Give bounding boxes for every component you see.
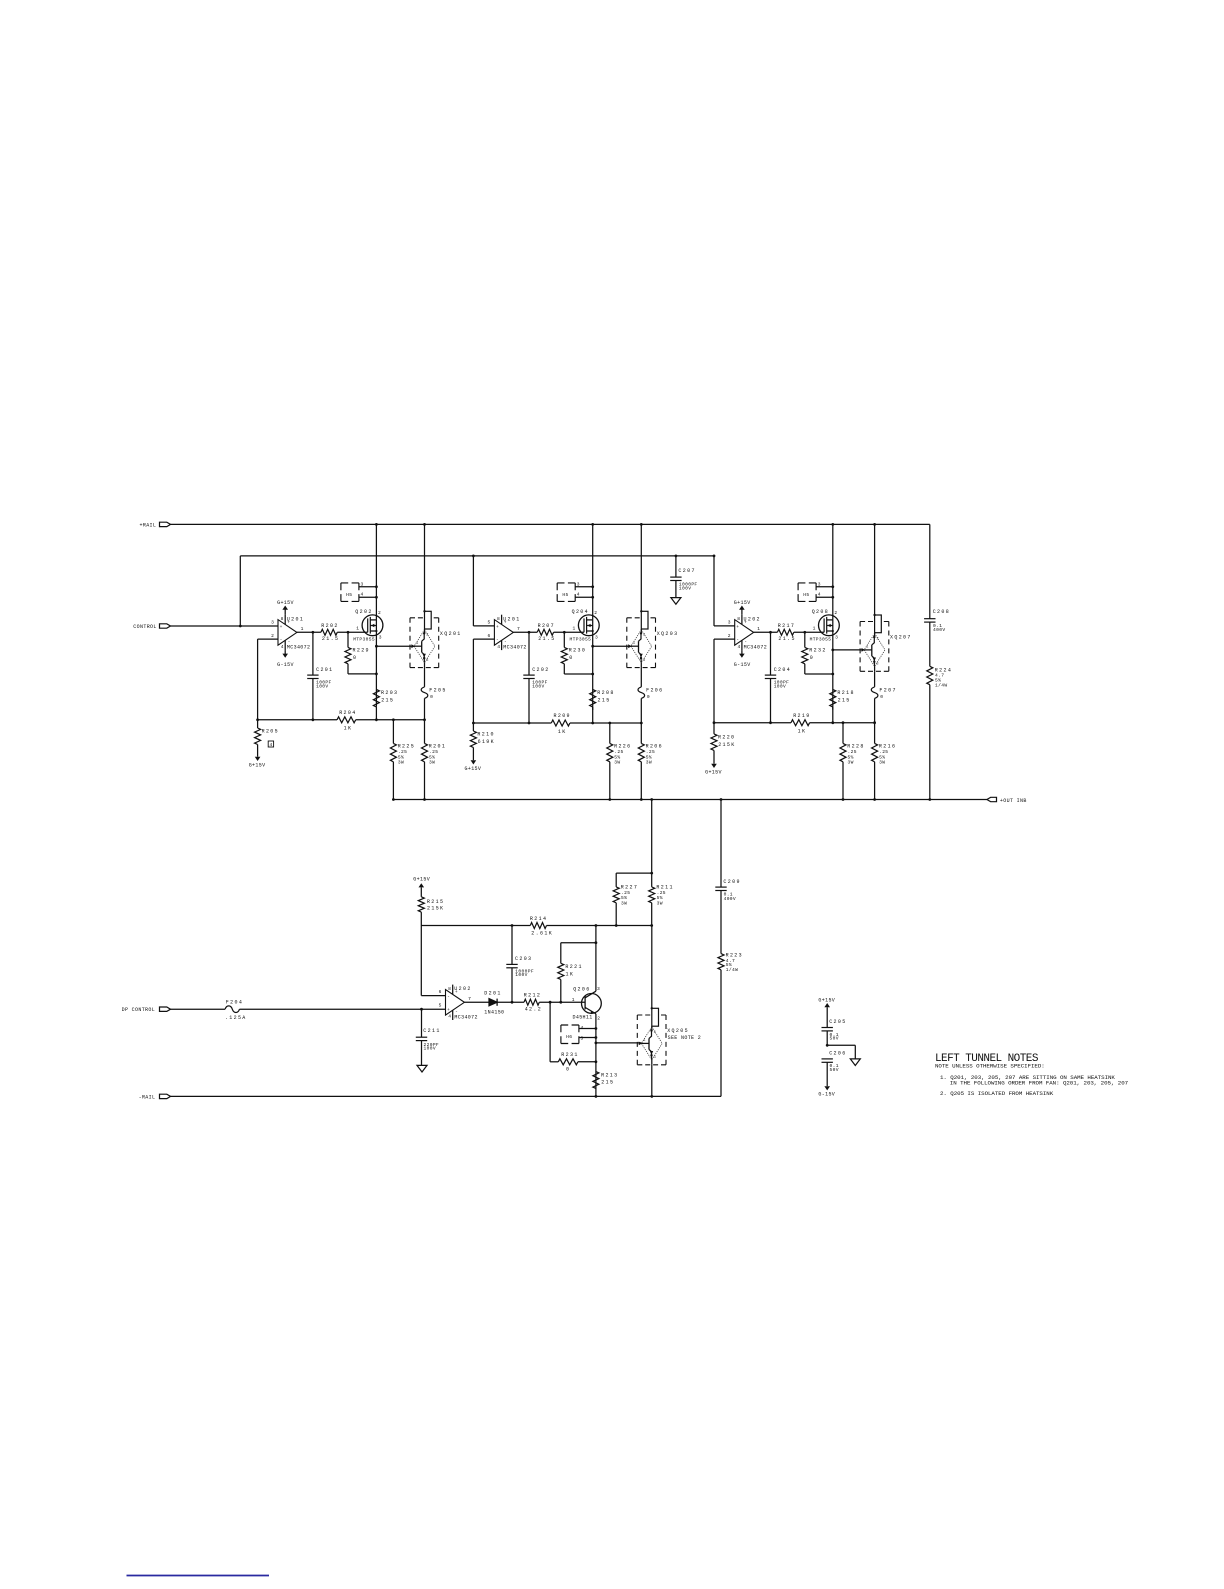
- svg-text:Q202: Q202: [355, 609, 372, 615]
- wire source line: [832, 631, 834, 710]
- svg-text:F207: F207: [879, 687, 896, 693]
- svg-text:1: 1: [633, 642, 635, 646]
- svg-text:1: 1: [573, 625, 576, 631]
- svg-text:XQ201: XQ201: [440, 631, 462, 637]
- wire gate node: [794, 631, 824, 633]
- fuse F205 0: [424, 668, 426, 687]
- svg-text:.25: .25: [429, 749, 438, 755]
- svg-text:C204: C204: [774, 667, 791, 673]
- capacitor C205 0.1 50V: [824, 1003, 830, 1007]
- svg-text:5%: 5%: [614, 754, 620, 760]
- svg-text:8: 8: [497, 616, 500, 622]
- wire heatsink pin 4: [816, 596, 833, 598]
- svg-text:R223: R223: [726, 953, 743, 959]
- svg-text:+: +: [496, 625, 499, 630]
- fuse F204: [225, 1006, 239, 1013]
- svg-text:U202: U202: [454, 986, 471, 992]
- wire diode to R212: [497, 1001, 524, 1003]
- connector +RAIL: [160, 522, 171, 526]
- svg-text:SEE NOTE 2: SEE NOTE 2: [668, 1035, 702, 1041]
- resistor R228 .25 5% 3W: [842, 723, 844, 744]
- svg-text:G+15V: G+15V: [705, 770, 722, 776]
- svg-text:0: 0: [647, 694, 650, 700]
- wire noninverting input feed: [713, 556, 715, 626]
- wire noninverting input feed: [472, 556, 474, 626]
- resistor R229 0: [347, 632, 349, 647]
- svg-text:-: -: [447, 995, 450, 1000]
- svg-text:R228: R228: [847, 744, 864, 750]
- op-amp U201 stage 2: [494, 620, 513, 646]
- svg-text:.25: .25: [657, 890, 666, 896]
- svg-text:.25: .25: [621, 890, 630, 896]
- wire feedback line: [714, 722, 791, 724]
- svg-text:2: 2: [728, 633, 731, 639]
- svg-text:F206: F206: [646, 687, 663, 693]
- svg-text:MC34072: MC34072: [454, 1014, 477, 1020]
- svg-text:4: 4: [577, 592, 580, 598]
- wire feedback line: [258, 719, 337, 721]
- svg-text:Q208: Q208: [812, 609, 829, 615]
- resistor R208 215: [590, 689, 596, 707]
- op-amp U202 lower half: [446, 990, 465, 1016]
- svg-text:5%: 5%: [879, 754, 885, 760]
- wire base node: [539, 1001, 585, 1003]
- svg-text:4: 4: [448, 1014, 451, 1020]
- svg-text:G+15V: G+15V: [277, 600, 294, 606]
- svg-text:DP CONTROL: DP CONTROL: [122, 1007, 156, 1013]
- svg-text:R227: R227: [621, 884, 638, 890]
- wire source line: [592, 631, 594, 710]
- svg-text:5%: 5%: [657, 895, 663, 901]
- svg-text:3: 3: [577, 581, 580, 587]
- transistor array XQ207: [874, 524, 876, 615]
- svg-text:3: 3: [379, 635, 382, 641]
- heatsink H5: [557, 582, 575, 584]
- svg-text:C202: C202: [532, 667, 549, 673]
- transistor Q202 MTP3055: [362, 615, 383, 636]
- svg-text:H5: H5: [562, 592, 568, 598]
- svg-text:6: 6: [439, 989, 442, 995]
- svg-text:21.5: 21.5: [778, 636, 795, 642]
- svg-text:R217: R217: [778, 623, 795, 629]
- wire DP control to pin 5: [420, 1008, 423, 1011]
- transistor array XQ201: [424, 524, 426, 611]
- ground: [417, 1065, 427, 1072]
- wire inverting input feedback: [473, 638, 494, 640]
- resistor R204 1K: [337, 717, 356, 723]
- transistor Q208 MTP3055: [819, 615, 840, 636]
- svg-text:R206: R206: [646, 744, 663, 750]
- resistor R231 0: [549, 1002, 551, 1062]
- svg-text:G+15V: G+15V: [413, 877, 430, 883]
- svg-text:4: 4: [818, 592, 821, 598]
- svg-text:Q206: Q206: [573, 987, 590, 993]
- resistor R219 1K: [791, 720, 810, 726]
- svg-text:R208: R208: [597, 690, 614, 696]
- svg-text:F204: F204: [226, 1000, 243, 1006]
- capacitor C209 0.1 400V: [720, 800, 722, 888]
- wire inverting input feedback: [714, 638, 735, 640]
- wire heatsink pin 4: [359, 596, 377, 598]
- svg-text:4: 4: [270, 742, 273, 748]
- wire op-amp output node: [754, 631, 778, 633]
- svg-text:5%: 5%: [398, 754, 404, 760]
- wire gate node: [554, 631, 584, 633]
- svg-text:0: 0: [569, 655, 573, 661]
- svg-text:.25: .25: [646, 749, 655, 755]
- heatsink H5: [798, 582, 816, 584]
- svg-text:3: 3: [426, 659, 428, 663]
- resistor R210 to G+15V: [472, 722, 475, 725]
- wire +OUT bus: [393, 799, 987, 801]
- svg-text:0: 0: [353, 655, 357, 661]
- svg-text:8: 8: [737, 616, 740, 622]
- wire emitter column: [595, 1014, 597, 1097]
- svg-text:1: 1: [416, 642, 418, 646]
- svg-text:R212: R212: [524, 993, 541, 999]
- svg-text:C201: C201: [316, 667, 333, 673]
- wire base drive: [833, 649, 864, 651]
- resistor R215 215K: [420, 887, 422, 896]
- svg-text:3: 3: [728, 619, 731, 625]
- svg-text:0: 0: [430, 694, 433, 700]
- svg-text:1: 1: [356, 625, 359, 631]
- svg-text:R224: R224: [935, 667, 952, 673]
- svg-text:4: 4: [281, 644, 284, 650]
- svg-text:0: 0: [566, 1066, 570, 1072]
- svg-text:1K: 1K: [344, 726, 353, 732]
- svg-text:XQ207: XQ207: [890, 635, 912, 641]
- svg-text:.25: .25: [879, 749, 888, 755]
- svg-text:100V: 100V: [532, 684, 544, 690]
- svg-text:R203: R203: [381, 690, 398, 696]
- svg-text:1K: 1K: [566, 971, 575, 977]
- wire +RAIL bus: [171, 523, 930, 525]
- svg-text:MC34072: MC34072: [287, 644, 310, 650]
- svg-text:5%: 5%: [848, 754, 854, 760]
- svg-text:3W: 3W: [398, 760, 404, 766]
- wire op-amp output node: [297, 631, 321, 633]
- svg-text:3: 3: [361, 581, 364, 587]
- resistor R218 215: [830, 689, 836, 707]
- svg-text:G+15V: G+15V: [249, 763, 266, 769]
- svg-text:4: 4: [497, 644, 500, 650]
- svg-text:R207: R207: [538, 623, 555, 629]
- svg-text:7: 7: [517, 626, 520, 632]
- svg-text:4: 4: [581, 1025, 584, 1031]
- svg-text:3: 3: [818, 581, 821, 587]
- svg-text:-: -: [280, 638, 283, 643]
- svg-text:H6: H6: [566, 1034, 572, 1040]
- svg-text:.25: .25: [398, 749, 407, 755]
- svg-text:G+15V: G+15V: [465, 766, 482, 772]
- svg-text:1K: 1K: [558, 729, 567, 735]
- svg-text:3: 3: [597, 986, 600, 992]
- resistor R209 1K: [551, 720, 570, 726]
- wire R211 column to +OUT bus: [651, 800, 653, 874]
- svg-text:R218: R218: [837, 690, 854, 696]
- svg-text:2: 2: [654, 1031, 656, 1035]
- svg-text:5%: 5%: [429, 754, 435, 760]
- svg-text:1: 1: [813, 625, 816, 631]
- svg-text:+: +: [280, 625, 283, 630]
- resistor R216 .25 5% 3W: [874, 723, 876, 744]
- svg-text:1: 1: [301, 626, 304, 632]
- svg-text:D45H11: D45H11: [573, 1015, 593, 1021]
- resistor R201 .25 5% 3W: [424, 720, 426, 744]
- transistor Q204 MTP3055: [578, 615, 599, 636]
- svg-text:8: 8: [281, 616, 284, 622]
- svg-text:C207: C207: [678, 568, 695, 574]
- svg-text:H5: H5: [803, 592, 809, 598]
- svg-text:R219: R219: [793, 713, 810, 719]
- svg-text:100V: 100V: [515, 972, 527, 978]
- heatsink H5: [341, 582, 359, 584]
- connector -RAIL: [160, 1094, 171, 1098]
- svg-text:2: 2: [271, 633, 274, 639]
- svg-text:619K: 619K: [478, 739, 495, 745]
- svg-text:1: 1: [572, 997, 575, 1003]
- svg-text:215K: 215K: [427, 905, 444, 911]
- svg-text:C203: C203: [515, 956, 532, 962]
- wire R227 R211 bracket: [616, 872, 652, 874]
- capacitor C211 220PF: [421, 1009, 423, 1037]
- capacitor C207 1000PF: [675, 556, 677, 577]
- svg-text:100V: 100V: [316, 684, 328, 690]
- svg-text:R226: R226: [614, 744, 631, 750]
- svg-text:3: 3: [876, 663, 878, 667]
- svg-text:2: 2: [378, 610, 381, 616]
- resistor R205 to G+15V: [256, 718, 259, 721]
- svg-text:1: 1: [643, 1039, 645, 1043]
- svg-text:2. Q205 IS ISOLATED FROM HEATS: 2. Q205 IS ISOLATED FROM HEATSINK: [940, 1090, 1054, 1097]
- svg-text:2: 2: [834, 610, 837, 616]
- wire heatsink pin 4: [579, 1028, 596, 1030]
- wire base drive: [596, 1042, 642, 1044]
- footer rule: [127, 1575, 270, 1577]
- svg-text:215: 215: [598, 697, 611, 703]
- svg-text:R232: R232: [809, 648, 826, 654]
- wire inverting input feedback: [258, 638, 278, 640]
- svg-text:2: 2: [426, 634, 428, 638]
- svg-text:XQ205: XQ205: [667, 1028, 689, 1034]
- svg-text:R214: R214: [530, 916, 547, 922]
- wire CONTROL: [171, 625, 279, 627]
- svg-text:2.61K: 2.61K: [531, 930, 553, 936]
- svg-text:2: 2: [597, 1015, 600, 1021]
- svg-text:50V: 50V: [830, 1067, 839, 1073]
- svg-text:4: 4: [738, 644, 741, 650]
- svg-text:21.5: 21.5: [322, 636, 339, 642]
- svg-text:G+15V: G+15V: [818, 997, 835, 1003]
- svg-text:C209: C209: [723, 879, 740, 885]
- svg-text:5%: 5%: [935, 678, 941, 684]
- fuse F207 0: [874, 671, 876, 687]
- resistor R220 to G+15V: [713, 721, 716, 724]
- resistor R224 4.7 5% 1/4W: [927, 666, 933, 684]
- svg-text:NOTE UNLESS OTHERWISE SPECIFIE: NOTE UNLESS OTHERWISE SPECIFIED:: [935, 1062, 1045, 1069]
- transistor array XQ203: [640, 524, 642, 611]
- svg-text:50V: 50V: [830, 1036, 839, 1042]
- svg-text:3: 3: [595, 635, 598, 641]
- connector DP CONTROL: [160, 1007, 171, 1011]
- svg-text:CONTROL: CONTROL: [133, 624, 156, 630]
- resistor R202 21.5: [321, 629, 337, 635]
- wire gate node: [337, 631, 367, 633]
- resistor R214 2.61K: [530, 923, 546, 929]
- svg-text:3W: 3W: [646, 760, 652, 766]
- svg-text:3: 3: [643, 659, 645, 663]
- wire collector: [595, 926, 597, 992]
- transistor Q206 D45H11: [582, 994, 602, 1014]
- wire to ground: [826, 1044, 829, 1047]
- svg-text:R209: R209: [554, 713, 571, 719]
- svg-text:G-15V: G-15V: [277, 662, 294, 668]
- svg-text:-: -: [496, 638, 499, 643]
- wire heatsink pin 3: [359, 586, 377, 588]
- svg-text:100V: 100V: [679, 585, 691, 591]
- svg-text:C205: C205: [829, 1019, 846, 1025]
- svg-text:H5: H5: [346, 592, 352, 598]
- svg-text:IN THE FOLLOWING ORDER FROM FA: IN THE FOLLOWING ORDER FROM FAN: Q201, 2…: [950, 1080, 1129, 1087]
- svg-text:2: 2: [876, 637, 878, 641]
- svg-text:3W: 3W: [848, 760, 854, 766]
- resistor R223 4.7 5% 1/4W: [718, 954, 724, 970]
- svg-text:3W: 3W: [614, 760, 620, 766]
- svg-text:.25: .25: [848, 749, 857, 755]
- svg-text:C211: C211: [423, 1028, 440, 1034]
- svg-text:F205: F205: [429, 687, 446, 693]
- svg-text:7: 7: [468, 996, 471, 1002]
- svg-text:3: 3: [271, 619, 274, 625]
- wire drain to +RAIL: [592, 524, 594, 620]
- resistor R225 .25 5% 3W: [392, 720, 394, 744]
- svg-text:R220: R220: [718, 735, 735, 741]
- capacitor C202 100PF: [528, 632, 530, 675]
- svg-text:MTP3055: MTP3055: [570, 637, 592, 643]
- svg-text:2: 2: [594, 610, 597, 616]
- svg-text:-RAIL: -RAIL: [139, 1094, 156, 1100]
- svg-text:3: 3: [835, 635, 838, 641]
- resistor R207 21.5: [537, 629, 553, 635]
- svg-text:R231: R231: [561, 1052, 578, 1058]
- resistor R230 0: [563, 632, 565, 647]
- transistor array XQ205: [651, 926, 653, 1009]
- svg-text:100V: 100V: [774, 684, 786, 690]
- resistor R232 0: [804, 632, 806, 647]
- svg-text:1: 1: [866, 646, 868, 650]
- svg-text:42.2: 42.2: [525, 1006, 542, 1012]
- svg-text:C206: C206: [829, 1051, 846, 1057]
- wire heatsink pin 3: [575, 586, 593, 588]
- resistor R213 215: [593, 1072, 599, 1089]
- wire source line: [375, 631, 377, 707]
- svg-text:5%: 5%: [646, 754, 652, 760]
- wire heatsink pin 3: [816, 586, 833, 588]
- connector CONTROL: [160, 624, 171, 628]
- svg-text:XQ203: XQ203: [657, 631, 679, 637]
- svg-text:MC34072: MC34072: [503, 644, 526, 650]
- capacitor C201 100PF: [312, 632, 314, 675]
- svg-text:0: 0: [880, 694, 883, 700]
- op-amp U201 stage 1: [278, 620, 297, 646]
- svg-text:+OUT INB: +OUT INB: [1000, 798, 1027, 804]
- svg-text:R210: R210: [477, 732, 494, 738]
- wire drain to +RAIL: [832, 524, 834, 620]
- svg-text:U202: U202: [744, 616, 761, 622]
- svg-text:3W: 3W: [621, 900, 627, 906]
- svg-text:R225: R225: [398, 744, 415, 750]
- wire to inverting input: [420, 926, 422, 996]
- svg-text:215: 215: [601, 1079, 614, 1085]
- svg-text:R221: R221: [565, 964, 582, 970]
- wire drain to +RAIL: [375, 524, 377, 620]
- svg-text:1N4150: 1N4150: [484, 1010, 504, 1016]
- svg-text:G-15V: G-15V: [818, 1091, 835, 1097]
- wire R214 node line: [421, 925, 530, 927]
- svg-text:215: 215: [838, 697, 851, 703]
- capacitor C206 0.1 50V: [822, 1058, 833, 1060]
- resistor R217 21.5: [777, 629, 793, 635]
- svg-text:Q204: Q204: [572, 609, 589, 615]
- op-amp U202 stage 3: [735, 620, 754, 646]
- resistor R203 215: [373, 689, 379, 707]
- svg-text:C208: C208: [933, 609, 950, 615]
- svg-text:MTP3055: MTP3055: [810, 637, 832, 643]
- resistor R227 .25 5% 3W: [613, 887, 619, 903]
- wire emitter to -RAIL: [651, 1065, 653, 1097]
- svg-text:6: 6: [488, 633, 491, 639]
- svg-text:1/4W: 1/4W: [726, 967, 738, 973]
- ground: [850, 1059, 860, 1066]
- wire feedback line: [473, 722, 551, 724]
- svg-text:1: 1: [757, 626, 760, 632]
- svg-text:215: 215: [381, 697, 394, 703]
- svg-text:G+15V: G+15V: [734, 600, 751, 606]
- svg-text:R204: R204: [339, 710, 356, 716]
- svg-text:21.5: 21.5: [538, 636, 555, 642]
- svg-text:R205: R205: [262, 729, 279, 735]
- svg-text:MTP3055: MTP3055: [353, 637, 375, 643]
- fuse F206 0: [640, 668, 642, 687]
- svg-text:5%: 5%: [621, 895, 627, 901]
- svg-text:4: 4: [361, 592, 364, 598]
- svg-text:MC34072: MC34072: [744, 644, 767, 650]
- wire base drive: [593, 645, 631, 647]
- svg-text:1K: 1K: [798, 729, 807, 735]
- resistor R221 1K: [561, 942, 596, 944]
- svg-text:3: 3: [654, 1056, 656, 1060]
- svg-text:R202: R202: [321, 623, 338, 629]
- wire op-amp output node: [513, 631, 537, 633]
- svg-text:+: +: [736, 625, 739, 630]
- svg-text:3W: 3W: [429, 760, 435, 766]
- svg-text:U201: U201: [503, 616, 520, 622]
- svg-text:400V: 400V: [933, 627, 945, 633]
- wire DP CONTROL: [171, 1008, 226, 1010]
- wire heatsink pin 5: [579, 1037, 596, 1039]
- power G-15V: [824, 1086, 830, 1090]
- svg-text:3W: 3W: [879, 760, 885, 766]
- svg-text:+RAIL: +RAIL: [140, 522, 157, 528]
- svg-text:R211: R211: [656, 884, 673, 890]
- svg-text:400V: 400V: [724, 896, 736, 902]
- svg-text:R215: R215: [427, 899, 444, 905]
- wire op-amp output: [464, 1001, 489, 1003]
- svg-text:R230: R230: [569, 648, 586, 654]
- svg-text:-: -: [736, 638, 739, 643]
- svg-text:0: 0: [810, 655, 814, 661]
